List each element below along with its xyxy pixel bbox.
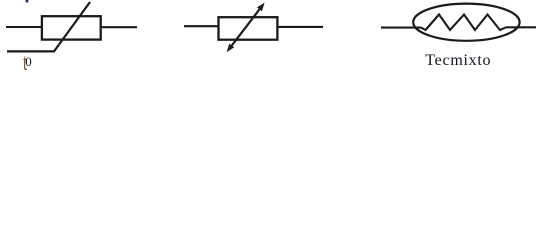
wire: variable resistor left lead [184, 25, 219, 27]
wire: thermistor left lead [6, 26, 42, 28]
variable resistor adjustment arrow shaft [229, 5, 263, 50]
wire: thermistor right lead [101, 26, 137, 28]
wire: variable resistor right lead [277, 26, 323, 28]
variable resistor body [219, 17, 278, 40]
arrowhead bottom-left [227, 44, 235, 53]
label Tecmixto under heater [425, 53, 491, 69]
wire: heater left lead [381, 27, 421, 29]
wire: heater right lead [506, 26, 537, 28]
heating element zigzag resistive coil [421, 15, 506, 31]
value label t0 (temperature) on thermistor [23, 51, 27, 75]
scan artifact blue mark [26, 0, 29, 2]
wire: thermistor bent temperature lead [7, 2, 90, 51]
arrowhead top-right [257, 3, 265, 12]
thermistor RK1 body [42, 16, 101, 39]
heating element oval outline [413, 4, 519, 41]
